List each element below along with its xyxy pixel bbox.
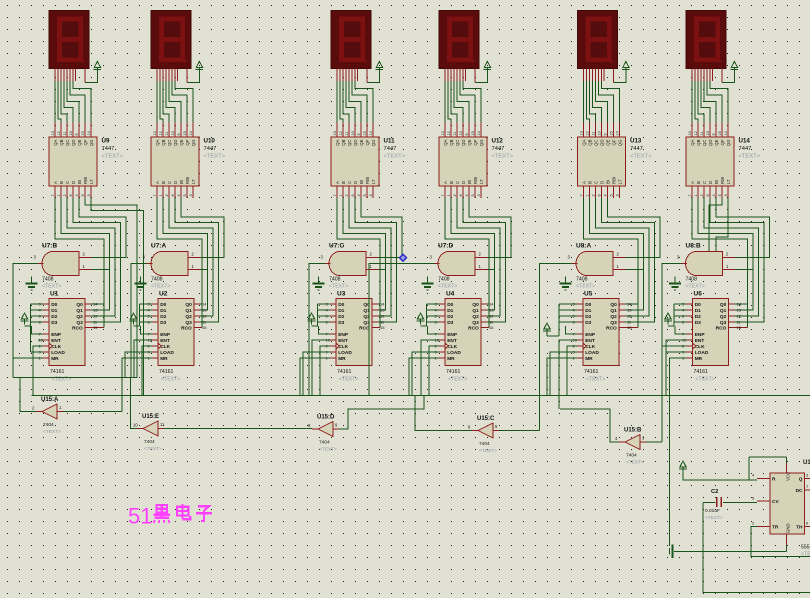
svg-text:BI: BI: [714, 180, 719, 184]
svg-text:ENP: ENP: [447, 332, 458, 338]
svg-text:CLK: CLK: [160, 344, 170, 350]
svg-text:14: 14: [93, 302, 98, 307]
svg-text:ENP: ENP: [338, 332, 349, 338]
svg-text:D2: D2: [160, 314, 166, 320]
svg-text:QD: QD: [353, 140, 358, 146]
svg-text:<TEXT>: <TEXT>: [705, 515, 723, 521]
svg-text:ENT: ENT: [51, 338, 61, 344]
svg-text:13: 13: [627, 308, 632, 313]
svg-text:QB: QB: [341, 139, 346, 145]
svg-text:QA: QA: [582, 139, 587, 145]
svg-text:A: A: [582, 181, 587, 184]
svg-text:QG: QG: [371, 139, 376, 146]
svg-text:U5: U5: [584, 291, 593, 298]
svg-text:13: 13: [93, 308, 98, 313]
svg-text:5: 5: [363, 194, 367, 196]
svg-text:QD: QD: [461, 140, 466, 146]
svg-text:QE: QE: [714, 139, 719, 145]
svg-text:QC: QC: [594, 140, 599, 146]
svg-text:7: 7: [333, 194, 337, 196]
svg-text:74161: 74161: [50, 369, 65, 375]
svg-text:7447: 7447: [739, 146, 752, 152]
svg-text:U15:B: U15:B: [624, 428, 642, 434]
svg-text:<TEXT>: <TEXT>: [151, 284, 170, 290]
svg-text:7: 7: [688, 194, 692, 196]
svg-text:VCC: VCC: [786, 472, 791, 481]
svg-text:TR: TR: [772, 524, 779, 530]
svg-text:14: 14: [202, 302, 207, 307]
svg-text:D0: D0: [338, 302, 344, 308]
svg-text:RBI: RBI: [365, 177, 370, 184]
svg-text:<TEXT>: <TEXT>: [319, 447, 337, 453]
svg-text:5: 5: [471, 194, 475, 196]
svg-text:13: 13: [380, 308, 385, 313]
svg-text:14: 14: [369, 131, 373, 135]
svg-text:U11: U11: [384, 138, 396, 145]
svg-text:0.01uF: 0.01uF: [705, 508, 720, 514]
svg-text:12: 12: [694, 131, 698, 135]
svg-text:LOAD: LOAD: [695, 350, 709, 356]
svg-text:1: 1: [57, 194, 61, 196]
svg-text:Q2: Q2: [185, 314, 192, 320]
svg-text:<TEXT>: <TEXT>: [686, 284, 705, 290]
svg-text:Q2: Q2: [610, 314, 617, 320]
svg-text:3: 3: [87, 194, 91, 196]
svg-text:13: 13: [153, 131, 157, 135]
svg-text:RCO: RCO: [606, 326, 617, 332]
svg-text:QD: QD: [708, 140, 713, 146]
svg-text:U15:E: U15:E: [142, 414, 159, 420]
svg-text:10: 10: [69, 131, 73, 135]
svg-text:10: 10: [351, 131, 355, 135]
svg-text:<TEXT>: <TEXT>: [630, 154, 652, 160]
svg-text:MR: MR: [447, 356, 455, 362]
svg-text:RBI: RBI: [83, 177, 88, 184]
svg-text:D: D: [71, 181, 76, 184]
svg-text:QC: QC: [167, 140, 172, 146]
svg-text:U13: U13: [630, 138, 642, 145]
svg-text:12: 12: [339, 131, 343, 135]
svg-text:ENT: ENT: [338, 338, 348, 344]
svg-text:6: 6: [597, 194, 601, 196]
svg-text:7447: 7447: [384, 146, 397, 152]
svg-text:<TEXT>: <TEXT>: [43, 429, 61, 435]
svg-text:7408: 7408: [686, 277, 698, 283]
svg-text:<TEXT>: <TEXT>: [696, 377, 715, 383]
svg-text:7408: 7408: [329, 277, 341, 283]
svg-text:U15:D: U15:D: [317, 415, 335, 421]
svg-text:LT: LT: [479, 179, 484, 184]
svg-text:12: 12: [202, 314, 207, 319]
svg-text:LT: LT: [726, 179, 731, 184]
svg-text:RBI: RBI: [720, 177, 725, 184]
svg-text:QG: QG: [726, 139, 731, 146]
svg-text:CLK: CLK: [695, 344, 705, 350]
svg-text:QF: QF: [83, 139, 88, 145]
svg-text:15: 15: [363, 131, 367, 135]
svg-text:12: 12: [93, 314, 98, 319]
svg-text:A: A: [335, 181, 340, 184]
svg-text:U1: U1: [50, 291, 59, 298]
svg-text:U3: U3: [337, 291, 346, 298]
svg-text:D1: D1: [338, 308, 344, 314]
svg-text:15: 15: [627, 325, 632, 330]
svg-text:7408: 7408: [438, 277, 450, 283]
svg-text:D: D: [600, 181, 605, 184]
svg-text:U7:B: U7:B: [42, 243, 57, 250]
svg-text:14: 14: [189, 131, 193, 135]
svg-text:D0: D0: [585, 302, 591, 308]
svg-text:14: 14: [380, 302, 385, 307]
svg-text:CLK: CLK: [585, 344, 595, 350]
svg-text:LT: LT: [89, 179, 94, 184]
svg-text:7: 7: [441, 194, 445, 196]
svg-text:14: 14: [724, 131, 728, 135]
svg-text:A: A: [53, 181, 58, 184]
svg-text:D2: D2: [51, 314, 57, 320]
svg-text:4: 4: [465, 194, 469, 196]
svg-text:QB: QB: [588, 139, 593, 145]
svg-text:MR: MR: [695, 356, 703, 362]
svg-text:4: 4: [603, 194, 607, 196]
svg-text:7447: 7447: [492, 146, 505, 152]
svg-text:D0: D0: [51, 302, 57, 308]
svg-text:D3: D3: [447, 320, 453, 326]
svg-text:QF: QF: [185, 139, 190, 145]
svg-text:D2: D2: [338, 314, 344, 320]
svg-text:B: B: [696, 181, 701, 184]
svg-text:10: 10: [133, 423, 138, 428]
svg-text:7404: 7404: [626, 453, 637, 459]
svg-text:<TEXT>: <TEXT>: [586, 377, 605, 383]
svg-text:U7:D: U7:D: [438, 243, 453, 250]
svg-text:U9: U9: [102, 138, 110, 145]
svg-text:QA: QA: [335, 139, 340, 145]
svg-text:D2: D2: [695, 314, 701, 320]
svg-text:U15:A: U15:A: [41, 397, 59, 403]
svg-text:7404: 7404: [144, 439, 155, 445]
svg-text:C: C: [347, 181, 352, 184]
svg-text:B: B: [449, 181, 454, 184]
svg-text:B: B: [161, 181, 166, 184]
svg-text:7447: 7447: [630, 146, 643, 152]
svg-text:MR: MR: [160, 356, 168, 362]
svg-text:D3: D3: [338, 320, 344, 326]
svg-text:14: 14: [737, 302, 742, 307]
svg-text:2: 2: [63, 194, 67, 196]
svg-text:D1: D1: [585, 308, 591, 314]
svg-text:Q3: Q3: [185, 320, 192, 326]
svg-text:9: 9: [177, 133, 181, 135]
svg-text:U14: U14: [739, 138, 751, 145]
svg-text:<TEXT>: <TEXT>: [384, 154, 406, 160]
svg-text:6: 6: [171, 194, 175, 196]
svg-text:15: 15: [380, 325, 385, 330]
svg-text:D: D: [708, 181, 713, 184]
svg-text:74161: 74161: [694, 369, 709, 375]
svg-text:B: B: [588, 181, 593, 184]
svg-text:D3: D3: [160, 320, 166, 326]
svg-text:15: 15: [718, 131, 722, 135]
svg-text:13: 13: [51, 131, 55, 135]
svg-text:CLK: CLK: [447, 344, 457, 350]
svg-text:5: 5: [183, 194, 187, 196]
svg-text:A: A: [443, 181, 448, 184]
svg-text:QF: QF: [720, 139, 725, 145]
svg-text:<TEXT>: <TEXT>: [626, 460, 644, 466]
svg-text:4: 4: [75, 194, 79, 196]
svg-text:6: 6: [351, 194, 355, 196]
svg-text:RBI: RBI: [185, 177, 190, 184]
svg-text:QB: QB: [59, 139, 64, 145]
svg-text:14: 14: [87, 131, 91, 135]
svg-text:15: 15: [202, 325, 207, 330]
svg-text:4: 4: [712, 194, 716, 196]
svg-text:QF: QF: [612, 139, 617, 145]
svg-text:QC: QC: [455, 140, 460, 146]
svg-text:QF: QF: [473, 139, 478, 145]
svg-text:BI: BI: [77, 180, 82, 184]
svg-text:Q0: Q0: [610, 302, 617, 308]
svg-text:D1: D1: [447, 308, 453, 314]
svg-text:D0: D0: [695, 302, 701, 308]
svg-text:U6: U6: [694, 291, 703, 298]
svg-text:Q2: Q2: [76, 314, 83, 320]
svg-text:14: 14: [489, 302, 494, 307]
svg-text:B: B: [341, 181, 346, 184]
svg-text:3: 3: [724, 194, 728, 196]
svg-text:15: 15: [93, 325, 98, 330]
svg-text:Q0: Q0: [472, 302, 479, 308]
svg-text:12: 12: [159, 131, 163, 135]
svg-text:DC: DC: [796, 488, 803, 494]
svg-text:7408: 7408: [151, 277, 163, 283]
svg-text:Q1: Q1: [185, 308, 192, 314]
svg-text:12: 12: [737, 314, 742, 319]
svg-text:4: 4: [357, 194, 361, 196]
svg-text:D1: D1: [51, 308, 57, 314]
svg-text:14: 14: [627, 302, 632, 307]
svg-text:U16: U16: [803, 460, 810, 466]
svg-text:10: 10: [597, 131, 601, 135]
svg-text:LT: LT: [371, 179, 376, 184]
svg-text:11: 11: [160, 422, 165, 427]
svg-text:D0: D0: [160, 302, 166, 308]
svg-text:C: C: [455, 181, 460, 184]
svg-text:QA: QA: [155, 139, 160, 145]
svg-text:74161: 74161: [337, 369, 352, 375]
svg-text:3: 3: [615, 194, 619, 196]
svg-text:<TEXT>: <TEXT>: [144, 446, 162, 452]
svg-text:10: 10: [459, 131, 463, 135]
svg-text:Q0: Q0: [720, 302, 727, 308]
svg-text:7447: 7447: [204, 146, 217, 152]
svg-text:7408: 7408: [576, 277, 588, 283]
svg-text:RCO: RCO: [359, 326, 370, 332]
svg-text:13: 13: [333, 131, 337, 135]
svg-text:RBI: RBI: [612, 177, 617, 184]
svg-text:1: 1: [694, 194, 698, 196]
svg-text:13: 13: [688, 131, 692, 135]
svg-text:QG: QG: [191, 139, 196, 146]
svg-text:Q2: Q2: [472, 314, 479, 320]
svg-text:2: 2: [453, 194, 457, 196]
svg-text:LOAD: LOAD: [51, 350, 65, 356]
svg-text:C: C: [594, 181, 599, 184]
svg-text:Q3: Q3: [610, 320, 617, 326]
svg-text:11: 11: [700, 132, 704, 136]
svg-text:D: D: [353, 181, 358, 184]
svg-text:15: 15: [609, 131, 613, 135]
svg-text:QF: QF: [365, 139, 370, 145]
svg-text:12: 12: [627, 314, 632, 319]
svg-text:9: 9: [465, 133, 469, 135]
svg-text:15: 15: [489, 325, 494, 330]
svg-text:12: 12: [447, 131, 451, 135]
svg-text:Q: Q: [799, 476, 803, 482]
svg-text:ENP: ENP: [695, 332, 706, 338]
svg-text:U2: U2: [159, 291, 168, 298]
svg-text:LT: LT: [618, 179, 623, 184]
svg-text:11: 11: [63, 132, 67, 136]
svg-text:5: 5: [718, 194, 722, 196]
svg-text:12: 12: [380, 314, 385, 319]
svg-text:15: 15: [737, 325, 742, 330]
svg-text:<TEXT>: <TEXT>: [448, 377, 467, 383]
svg-text:LT: LT: [191, 179, 196, 184]
svg-text:BI: BI: [606, 180, 611, 184]
svg-text:13: 13: [202, 308, 207, 313]
svg-text:C: C: [702, 181, 707, 184]
svg-text:2: 2: [591, 194, 595, 196]
svg-text:C: C: [65, 181, 70, 184]
svg-text:ENP: ENP: [160, 332, 171, 338]
svg-text:U7:A: U7:A: [151, 243, 166, 250]
svg-text:14: 14: [615, 131, 619, 135]
svg-text:7408: 7408: [42, 277, 54, 283]
svg-text:QA: QA: [53, 139, 58, 145]
svg-text:U10: U10: [204, 138, 216, 145]
svg-text:QE: QE: [179, 139, 184, 145]
svg-text:<TEXT>: <TEXT>: [42, 284, 61, 290]
svg-text:Q1: Q1: [720, 308, 727, 314]
svg-text:7404: 7404: [319, 440, 330, 446]
svg-text:74161: 74161: [159, 369, 174, 375]
svg-text:RCO: RCO: [468, 326, 479, 332]
svg-text:CLK: CLK: [51, 344, 61, 350]
svg-text:12: 12: [489, 314, 494, 319]
svg-text:D1: D1: [160, 308, 166, 314]
svg-text:6: 6: [69, 194, 73, 196]
svg-text:QG: QG: [618, 139, 623, 146]
svg-text:7404: 7404: [43, 422, 54, 428]
svg-text:<TEXT>: <TEXT>: [204, 154, 226, 160]
svg-text:U12: U12: [492, 138, 504, 145]
svg-text:3: 3: [369, 194, 373, 196]
svg-text:D2: D2: [447, 314, 453, 320]
svg-text:7: 7: [153, 194, 157, 196]
svg-text:ENT: ENT: [447, 338, 457, 344]
svg-text:<TEXT>: <TEXT>: [161, 377, 180, 383]
svg-text:U7:C: U7:C: [329, 243, 344, 250]
svg-text:D3: D3: [585, 320, 591, 326]
svg-text:15: 15: [81, 131, 85, 135]
svg-text:<TEXT>: <TEXT>: [739, 154, 761, 160]
svg-text:GND: GND: [786, 523, 791, 533]
svg-text:11: 11: [453, 132, 457, 136]
svg-text:CLK: CLK: [338, 344, 348, 350]
svg-text:13: 13: [441, 131, 445, 135]
svg-text:Q2: Q2: [720, 314, 727, 320]
svg-text:15: 15: [183, 131, 187, 135]
svg-text:LOAD: LOAD: [160, 350, 174, 356]
svg-text:C: C: [167, 181, 172, 184]
svg-text:ENT: ENT: [695, 338, 705, 344]
svg-text:QE: QE: [606, 139, 611, 145]
svg-text:Q1: Q1: [472, 308, 479, 314]
svg-text:TH: TH: [796, 524, 803, 530]
svg-text:11: 11: [345, 132, 349, 136]
svg-text:3: 3: [189, 194, 193, 196]
svg-text:74161: 74161: [446, 369, 461, 375]
svg-text:D: D: [461, 181, 466, 184]
svg-text:C2: C2: [711, 489, 718, 495]
svg-text:RCO: RCO: [181, 326, 192, 332]
svg-text:QG: QG: [479, 139, 484, 146]
svg-text:RCO: RCO: [716, 326, 727, 332]
svg-text:QC: QC: [65, 140, 70, 146]
svg-text:QD: QD: [173, 140, 178, 146]
svg-text:11: 11: [591, 132, 595, 136]
svg-text:RCO: RCO: [72, 326, 83, 332]
svg-text:QB: QB: [696, 139, 701, 145]
svg-text:QB: QB: [449, 139, 454, 145]
svg-text:D: D: [173, 181, 178, 184]
svg-text:D3: D3: [695, 320, 701, 326]
svg-text:QE: QE: [467, 139, 472, 145]
svg-text:LOAD: LOAD: [585, 350, 599, 356]
svg-text:ENT: ENT: [585, 338, 595, 344]
svg-text:7: 7: [51, 194, 55, 196]
svg-text:QE: QE: [359, 139, 364, 145]
svg-text:1: 1: [447, 194, 451, 196]
svg-text:13: 13: [737, 308, 742, 313]
svg-text:<TEXT>: <TEXT>: [492, 154, 514, 160]
svg-text:12: 12: [57, 131, 61, 135]
svg-text:RBI: RBI: [473, 177, 478, 184]
svg-text:11: 11: [165, 132, 169, 136]
svg-text:LOAD: LOAD: [338, 350, 352, 356]
svg-text:<TEXT>: <TEXT>: [102, 154, 124, 160]
svg-text:3: 3: [477, 194, 481, 196]
svg-text:Q1: Q1: [76, 308, 83, 314]
svg-text:U8:B: U8:B: [686, 243, 701, 250]
svg-text:LOAD: LOAD: [447, 350, 461, 356]
svg-text:BI: BI: [179, 180, 184, 184]
svg-text:BI: BI: [359, 180, 364, 184]
svg-text:7447: 7447: [102, 146, 115, 152]
svg-text:CV: CV: [772, 499, 779, 505]
svg-text:MR: MR: [585, 356, 593, 362]
svg-text:5: 5: [81, 194, 85, 196]
svg-text:D2: D2: [585, 314, 591, 320]
svg-text:ENP: ENP: [585, 332, 596, 338]
svg-text:1: 1: [585, 194, 589, 196]
svg-text:<TEXT>: <TEXT>: [329, 284, 348, 290]
svg-text:7: 7: [579, 194, 583, 196]
svg-text:51: 51: [128, 504, 152, 529]
svg-text:13: 13: [489, 308, 494, 313]
